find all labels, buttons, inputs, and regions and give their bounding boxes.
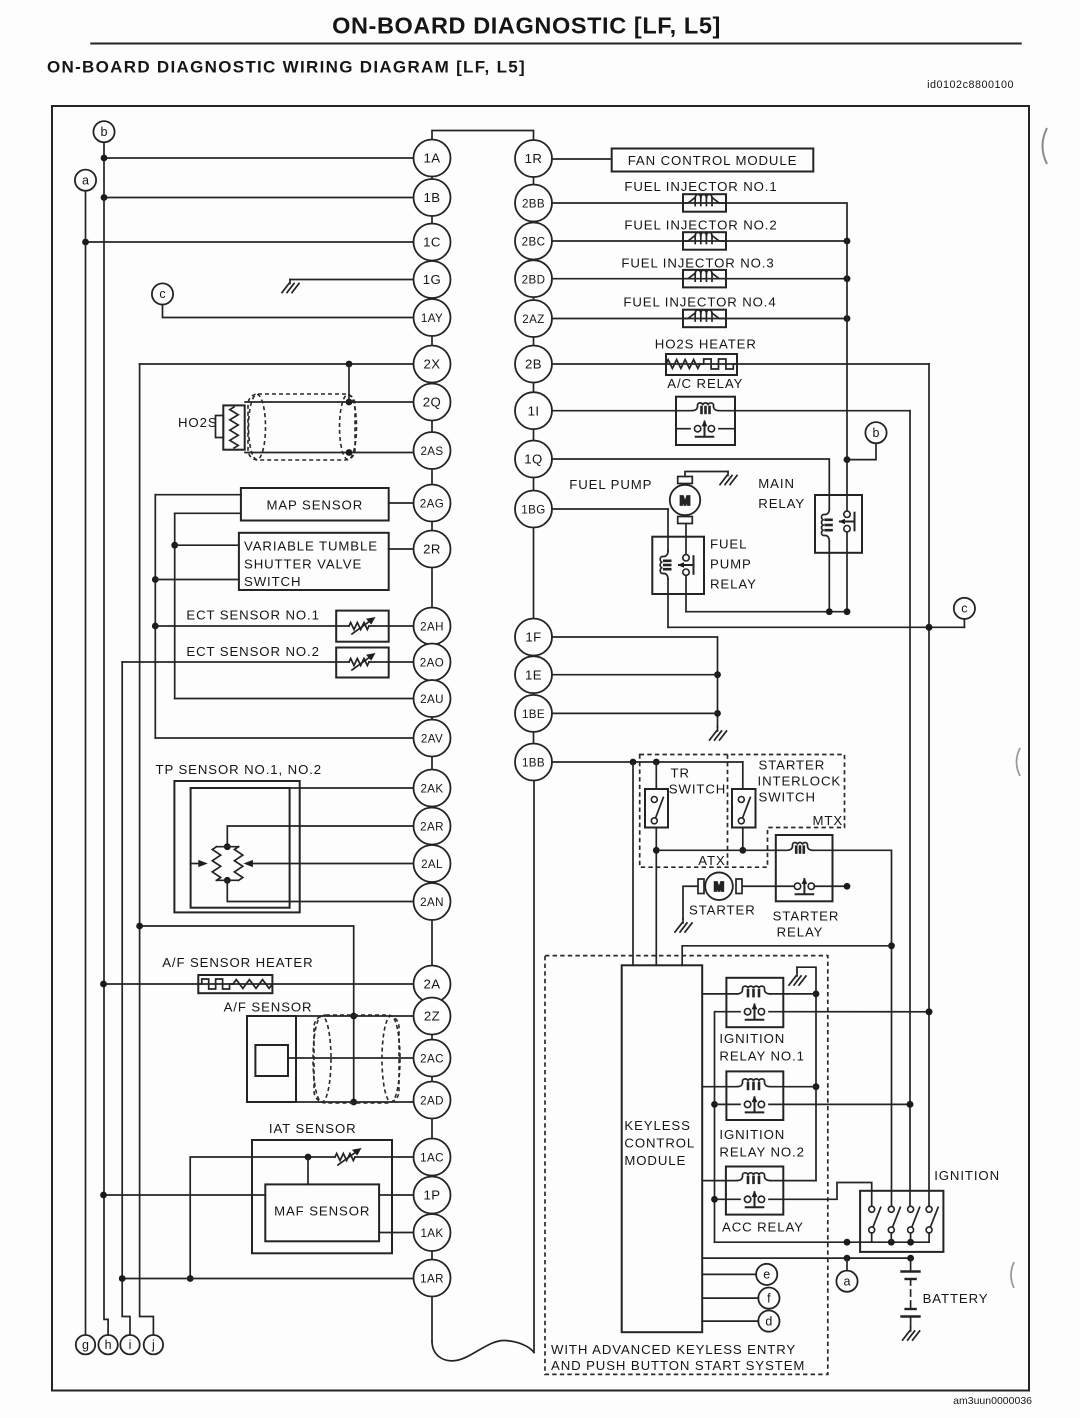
wire main relay outputs [828, 553, 830, 612]
svg-text:2Q: 2Q [423, 395, 441, 410]
svg-text:M: M [714, 880, 724, 894]
HO2S shield dashed [248, 394, 355, 460]
svg-text:f: f [767, 1291, 771, 1305]
svg-text:MTX: MTX [813, 813, 844, 828]
wire 2AD [296, 1101, 414, 1103]
svg-text:g: g [82, 1338, 89, 1352]
pin 2AL [414, 845, 451, 882]
A/F shield dashed [314, 1015, 399, 1103]
starter relay box [776, 835, 833, 901]
variable tumble shutter valve switch box [239, 533, 389, 590]
svg-text:SWITCH: SWITCH [244, 574, 301, 589]
ground at battery [903, 1327, 920, 1340]
wire HO2S rail down [928, 364, 930, 1206]
wire left bus x174 [174, 513, 176, 698]
wire 1G with ground [290, 279, 414, 281]
wire node c stub [963, 619, 965, 627]
wire 1P left [104, 1194, 266, 1196]
svg-text:FAN CONTROL MODULE: FAN CONTROL MODULE [628, 153, 798, 168]
wire 2AC [288, 1057, 414, 1059]
wire 1BB chain down to squiggle [533, 781, 535, 1353]
svg-text:ON-BOARD DIAGNOSTIC WIRING DIA: ON-BOARD DIAGNOSTIC WIRING DIAGRAM [LF, … [47, 58, 526, 77]
svg-text:IAT SENSOR: IAT SENSOR [269, 1121, 357, 1136]
svg-text:M: M [680, 493, 691, 508]
wire 2AV [155, 737, 413, 739]
svg-text:id0102c8800100: id0102c8800100 [927, 79, 1014, 91]
svg-text:ECT SENSOR NO.1: ECT SENSOR NO.1 [186, 608, 319, 623]
pin 1AR [414, 1260, 451, 1297]
svg-text:b: b [101, 125, 108, 139]
wire continuation squiggle bottom [432, 1340, 534, 1360]
wire PCM right column chain [533, 177, 535, 744]
svg-text:HO2S: HO2S [178, 415, 218, 430]
pin 2R [414, 531, 451, 568]
starter motor [698, 872, 742, 900]
wire 1E [552, 674, 718, 676]
svg-text:2BB: 2BB [522, 198, 545, 211]
wire VTSS pin1 [175, 544, 239, 546]
pin 2BC [515, 223, 552, 260]
pin 1C [414, 224, 451, 261]
svg-text:STARTER: STARTER [773, 909, 840, 924]
TP potentiometer right zigzag [234, 847, 242, 881]
pin 2Q [414, 384, 451, 421]
wire 1BG to fuel pump relay [552, 508, 668, 510]
wire fuel pump to ground [685, 472, 728, 477]
wire 2AZ [552, 318, 847, 320]
svg-text:e: e [763, 1268, 770, 1282]
svg-text:A/F SENSOR HEATER: A/F SENSOR HEATER [162, 955, 313, 970]
pin 2AV [414, 720, 451, 757]
svg-text:A/C RELAY: A/C RELAY [667, 376, 743, 391]
ignition switch blade 3 [908, 1206, 920, 1233]
scan artifact arc 3 [1011, 1262, 1014, 1288]
wire 2A through heater [104, 983, 414, 985]
svg-text:STARTER: STARTER [689, 903, 756, 918]
pin 1AK [414, 1214, 451, 1251]
fuel pump motor [670, 477, 700, 524]
A/F sensor outer box [247, 1016, 296, 1102]
pin 1BB [515, 744, 552, 781]
ECT sensor no.2 box [336, 648, 389, 678]
wire 1I to x910 rail [552, 410, 910, 412]
svg-text:1F: 1F [525, 630, 541, 645]
wire 1A [104, 157, 414, 159]
wire MAP pin1 to left bus [155, 494, 241, 496]
wire 2AH [155, 625, 413, 627]
wire IAT to MAF stem [307, 1157, 309, 1184]
wire 2B to x929 rail [552, 363, 929, 365]
svg-text:2BD: 2BD [522, 273, 546, 286]
pin 2A [414, 966, 451, 1003]
svg-text:2BC: 2BC [522, 236, 546, 249]
pin 2AK [414, 770, 451, 807]
wire 2BD [552, 278, 847, 280]
svg-text:2AU: 2AU [420, 693, 444, 706]
node h circle [98, 1335, 117, 1354]
title rule [91, 43, 1021, 45]
wire battery feed line [702, 1257, 910, 1259]
A/C relay box [676, 397, 735, 445]
wire starter relay coil feed [656, 849, 786, 851]
wire left bus x155 [154, 495, 156, 738]
svg-text:2R: 2R [423, 542, 441, 557]
svg-text:2AO: 2AO [420, 657, 444, 670]
svg-text:ATX: ATX [698, 853, 725, 868]
wire i vertical bus (ECT NO.2 to node i) [122, 662, 130, 1335]
ATX MTX dashed boxes [640, 755, 845, 868]
svg-text:1BE: 1BE [522, 708, 545, 721]
svg-text:2AV: 2AV [421, 733, 443, 746]
ground at starter [675, 919, 692, 932]
wire 1AC [190, 1157, 413, 1279]
node a circle top [75, 170, 96, 191]
pin 1Q [515, 441, 552, 478]
svg-text:1A: 1A [424, 151, 441, 166]
pin 2Z [414, 998, 451, 1035]
IAT thermistor [336, 1156, 354, 1159]
wire keyless to e [702, 1273, 756, 1275]
svg-text:1BB: 1BB [522, 757, 545, 770]
svg-text:1AR: 1AR [420, 1273, 444, 1286]
pin 2AR [414, 808, 451, 845]
svg-text:FUEL: FUEL [710, 537, 747, 552]
wire 2Z [296, 1015, 414, 1017]
wire keyless feed 1 [632, 762, 634, 965]
main relay contact [846, 495, 848, 511]
wire TR switch leads [655, 762, 657, 789]
pin 1E [515, 656, 552, 693]
node b circle top [93, 121, 114, 142]
svg-text:RELAY: RELAY [758, 496, 805, 511]
wire ignition relay no.1 coil [702, 993, 737, 995]
pin 2BB [515, 185, 552, 222]
wire A/C rail down [909, 411, 911, 1207]
MAP sensor box [241, 488, 389, 521]
wire ground rail for relay coils [797, 967, 816, 1180]
svg-text:1BG: 1BG [521, 504, 545, 517]
starter interlock switch box [732, 789, 756, 828]
svg-text:a: a [82, 173, 89, 187]
svg-text:2A: 2A [424, 977, 441, 992]
svg-text:STARTER: STARTER [759, 758, 826, 773]
svg-text:SHUTTER VALVE: SHUTTER VALVE [244, 557, 362, 572]
wire relay outputs join y611 [686, 611, 847, 613]
main relay box [815, 495, 862, 553]
ignition relay no.2 box [726, 1071, 783, 1120]
ground at ignition relay no.1 [796, 967, 798, 972]
pin 1P [414, 1177, 451, 1214]
TR switch contact [651, 797, 663, 824]
node j circle [144, 1335, 163, 1354]
svg-text:TP SENSOR NO.1, NO.2: TP SENSOR NO.1, NO.2 [156, 762, 323, 777]
svg-text:1C: 1C [423, 235, 441, 250]
svg-text:1I: 1I [528, 403, 540, 418]
svg-text:IGNITION: IGNITION [719, 1031, 785, 1046]
wire injector supply bus down to main relay [846, 241, 848, 495]
svg-text:2AG: 2AG [420, 498, 444, 511]
wire 1AR [122, 1278, 413, 1280]
wire 2X [140, 363, 414, 365]
wire A/F shield feed from j bus [140, 926, 354, 1102]
wire starter motor to ground [683, 886, 698, 919]
svg-text:2AZ: 2AZ [522, 313, 544, 326]
svg-text:c: c [159, 287, 165, 301]
node i circle [120, 1335, 139, 1354]
fuel injector no.1 [683, 194, 726, 212]
pin 1B [414, 179, 451, 216]
svg-text:FUEL INJECTOR NO.2: FUEL INJECTOR NO.2 [624, 218, 777, 233]
node e circle [756, 1264, 777, 1285]
wire MAP pin2 to left bus [175, 512, 241, 514]
ground at fuel pump [720, 472, 737, 485]
svg-text:CONTROL: CONTROL [624, 1136, 695, 1151]
svg-text:FUEL INJECTOR NO.1: FUEL INJECTOR NO.1 [624, 179, 777, 194]
svg-text:FUEL INJECTOR NO.3: FUEL INJECTOR NO.3 [621, 256, 774, 271]
wire 2AL with arrow [253, 863, 414, 865]
svg-text:h: h [105, 1338, 112, 1352]
wire starter relay coil out [813, 850, 892, 1206]
wire chain to ignition rail [715, 1241, 930, 1243]
node c circle left [152, 283, 173, 304]
HO2S heater element [666, 360, 700, 369]
svg-text:2AK: 2AK [420, 783, 443, 796]
svg-text:d: d [765, 1314, 772, 1328]
node f circle [758, 1288, 779, 1309]
svg-text:2B: 2B [525, 357, 542, 372]
wire 2AO [122, 661, 413, 663]
MAF sensor box [265, 1184, 379, 1241]
ECT sensor no.1 thermistor [350, 625, 368, 628]
HO2S internal resistor [230, 407, 238, 448]
svg-text:SWITCH: SWITCH [669, 782, 726, 797]
pin 2X [414, 346, 451, 383]
wire 2AK [191, 787, 414, 789]
svg-text:MAIN: MAIN [758, 476, 795, 491]
pin 1G [414, 261, 451, 298]
pin 1AY [414, 299, 451, 336]
TP bottom node [224, 877, 231, 884]
pin 2AO [414, 644, 451, 681]
ECT sensor no.1 box [336, 611, 389, 642]
svg-text:ACC RELAY: ACC RELAY [722, 1220, 804, 1235]
wire b vertical bus to node h [104, 142, 108, 1335]
fuel injector no.2 [683, 232, 726, 250]
svg-text:1AC: 1AC [420, 1152, 444, 1165]
wire 1P right [379, 1194, 413, 1196]
svg-text:KEYLESS: KEYLESS [624, 1118, 690, 1133]
wire 2R [389, 548, 414, 550]
pin 2BD [515, 260, 552, 297]
pin 1I [515, 392, 552, 429]
svg-text:1R: 1R [525, 151, 543, 166]
wire ACC contact to ignition switch [769, 1183, 872, 1207]
TR switch box [645, 789, 668, 828]
wire bus to node a [846, 1258, 848, 1271]
wire HO2S shield link vertical [348, 364, 350, 402]
FAN CONTROL MODULE box [612, 149, 814, 172]
fuel injector no.4 [683, 310, 726, 328]
A/F sensor heater box [198, 975, 272, 993]
wire j vertical bus (2X to node j) [140, 364, 154, 1335]
wire 2AS from HO2S [245, 452, 414, 454]
pin 1BG [515, 491, 552, 528]
starter relay contact [742, 885, 795, 887]
svg-text:1G: 1G [423, 272, 441, 287]
pin 1R [515, 140, 552, 177]
TP potentiometer left zigzag [212, 847, 220, 881]
svg-text:INTERLOCK: INTERLOCK [758, 774, 842, 789]
pin 2AD [414, 1082, 451, 1119]
wire 2AR [227, 826, 413, 847]
wire 1BB [552, 761, 743, 763]
keyless control module box [622, 965, 703, 1332]
ignition relay no.1 box [726, 978, 783, 1027]
A/C relay coil [693, 409, 718, 412]
svg-text:HO2S HEATER: HO2S HEATER [655, 337, 757, 352]
svg-text:VARIABLE TUMBLE: VARIABLE TUMBLE [244, 539, 378, 554]
wire PCM left column chain [431, 177, 433, 1342]
wire PCM top bracket [432, 131, 534, 141]
svg-text:1B: 1B [424, 190, 441, 205]
node a circle right [836, 1271, 857, 1292]
pin 1BE [515, 695, 552, 732]
svg-text:a: a [844, 1274, 851, 1288]
ACC relay box [726, 1167, 783, 1215]
pin 2AS [414, 432, 451, 469]
wire ignition bottom leads [872, 1233, 929, 1242]
svg-text:1AY: 1AY [421, 312, 443, 325]
svg-text:MODULE: MODULE [624, 1153, 686, 1168]
pin 2AZ [515, 300, 552, 337]
wire keyless to d [702, 1320, 758, 1322]
wire relay contact chain down [714, 1012, 716, 1242]
pin 2AU [414, 680, 451, 717]
wire node b to bus [847, 443, 876, 459]
wire keyless to f [702, 1297, 758, 1299]
fuel injector no.3 [683, 270, 726, 288]
svg-text:2AN: 2AN [420, 896, 444, 909]
HO2S sensor body [223, 405, 244, 449]
svg-text:RELAY NO.1: RELAY NO.1 [719, 1049, 804, 1064]
ignition switch box [860, 1191, 943, 1252]
svg-text:1Q: 1Q [524, 452, 542, 467]
svg-text:2AH: 2AH [420, 621, 444, 634]
keyless dashed box [545, 956, 828, 1375]
wire 2AN [227, 880, 413, 901]
node g circle [76, 1335, 95, 1354]
svg-text:SWITCH: SWITCH [759, 790, 816, 805]
starter interlock contact [738, 797, 750, 824]
svg-text:2AD: 2AD [420, 1095, 444, 1108]
ground at 1BE [710, 727, 727, 740]
svg-text:RELAY: RELAY [777, 925, 824, 940]
A/F sensor element box [255, 1045, 288, 1076]
node c circle right [954, 598, 975, 619]
svg-text:WITH ADVANCED KEYLESS ENTRY: WITH ADVANCED KEYLESS ENTRY [551, 1342, 796, 1357]
svg-text:FUEL INJECTOR NO.4: FUEL INJECTOR NO.4 [623, 295, 776, 310]
TP top node [224, 843, 231, 850]
ground at 1G [282, 280, 299, 293]
wire 1R to fan control module [552, 158, 612, 160]
svg-text:RELAY: RELAY [710, 577, 757, 592]
wire 1AK [379, 1232, 413, 1234]
svg-text:ECT SENSOR NO.2: ECT SENSOR NO.2 [186, 644, 319, 659]
svg-text:MAF SENSOR: MAF SENSOR [274, 1204, 370, 1219]
svg-text:j: j [151, 1338, 155, 1352]
fuel pump relay coil [667, 509, 669, 551]
wire 2AG [389, 502, 414, 504]
ignition relay no.2 contact [715, 1103, 741, 1105]
A/F heater element [198, 979, 233, 989]
svg-text:2AS: 2AS [420, 445, 443, 458]
wire fuel pump relay coil to node c [668, 626, 964, 628]
svg-text:RELAY NO.2: RELAY NO.2 [719, 1145, 804, 1160]
battery symbol [902, 1258, 920, 1327]
svg-text:2AL: 2AL [421, 858, 443, 871]
wire fuel pump motor to relay [685, 524, 687, 554]
svg-text:BATTERY: BATTERY [923, 1291, 989, 1306]
ignition switch blade 1 [869, 1206, 881, 1233]
wire VTSS pin2 [155, 579, 239, 581]
A/C relay contact [676, 428, 690, 430]
svg-text:1AK: 1AK [420, 1227, 443, 1240]
IAT sensor outer box [252, 1140, 392, 1253]
pin 1AC [414, 1139, 451, 1176]
svg-text:MAP SENSOR: MAP SENSOR [266, 498, 363, 513]
TP sensor outer box [174, 781, 299, 912]
svg-text:1E: 1E [525, 667, 542, 682]
svg-text:b: b [873, 426, 880, 440]
svg-text:TR: TR [671, 766, 690, 781]
wire 2BB to injector bus [552, 203, 847, 241]
TP wiper arrow left [191, 863, 200, 865]
wire 1C [86, 241, 414, 243]
wire 1Q to main relay [552, 459, 829, 495]
svg-text:2AC: 2AC [420, 1053, 444, 1066]
svg-text:IGNITION: IGNITION [934, 1168, 1000, 1183]
wire starter relay to keyless [682, 946, 891, 966]
wire a vertical bus to node g [85, 191, 87, 1335]
node b circle right [865, 422, 886, 443]
ignition switch blade 4 [926, 1206, 938, 1233]
ACC relay contact [715, 1198, 741, 1200]
node d circle [758, 1311, 779, 1332]
wire 2BC [552, 240, 847, 242]
HO2S heater box [666, 354, 737, 375]
ECT sensor no.2 thermistor [350, 661, 368, 664]
pin 1F [515, 619, 552, 656]
wire starter interlock leads [742, 762, 744, 789]
pin 2B [515, 346, 552, 383]
pin 2AH [414, 608, 451, 645]
wire 2AU [175, 698, 414, 700]
svg-text:IGNITION: IGNITION [719, 1127, 785, 1142]
svg-text:c: c [961, 602, 967, 616]
wire 1AY from node c [163, 305, 414, 318]
pin 2AG [414, 485, 451, 522]
svg-text:AND PUSH BUTTON START SYSTEM: AND PUSH BUTTON START SYSTEM [551, 1358, 805, 1373]
TP node link bars [217, 847, 239, 881]
svg-text:am3uun0000036: am3uun0000036 [953, 1395, 1032, 1407]
TP sensor inner box [191, 788, 290, 908]
wire ACC relay coil [702, 1180, 737, 1182]
svg-text:1P: 1P [424, 1188, 441, 1203]
wire 1F [552, 637, 718, 727]
fuel pump relay box [652, 537, 704, 594]
svg-text:2AR: 2AR [420, 821, 444, 834]
pin 2AN [414, 883, 451, 920]
